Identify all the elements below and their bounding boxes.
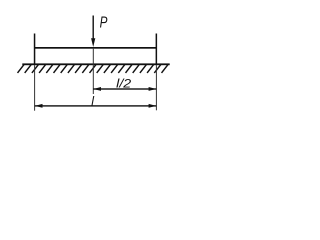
arrowhead l right <box>149 104 157 108</box>
ground line <box>22 63 169 65</box>
ground hatching <box>18 65 169 73</box>
right extension line <box>156 65 157 110</box>
arrowhead l/2 right <box>149 87 157 91</box>
arrowhead l/2 left <box>93 87 101 91</box>
dimension line l <box>35 105 157 106</box>
beam right end tick <box>156 34 158 65</box>
force arrow P shaft <box>93 16 94 40</box>
left extension line <box>34 65 35 111</box>
arrowhead l left <box>35 104 43 108</box>
svg-text:l/2: l/2 <box>116 77 131 91</box>
dimension line l/2 <box>93 88 156 89</box>
svg-text:P: P <box>100 15 108 32</box>
beam top line <box>34 47 157 49</box>
force arrow P head <box>91 38 95 47</box>
center extension line <box>93 49 94 94</box>
beam left end tick <box>34 34 36 65</box>
